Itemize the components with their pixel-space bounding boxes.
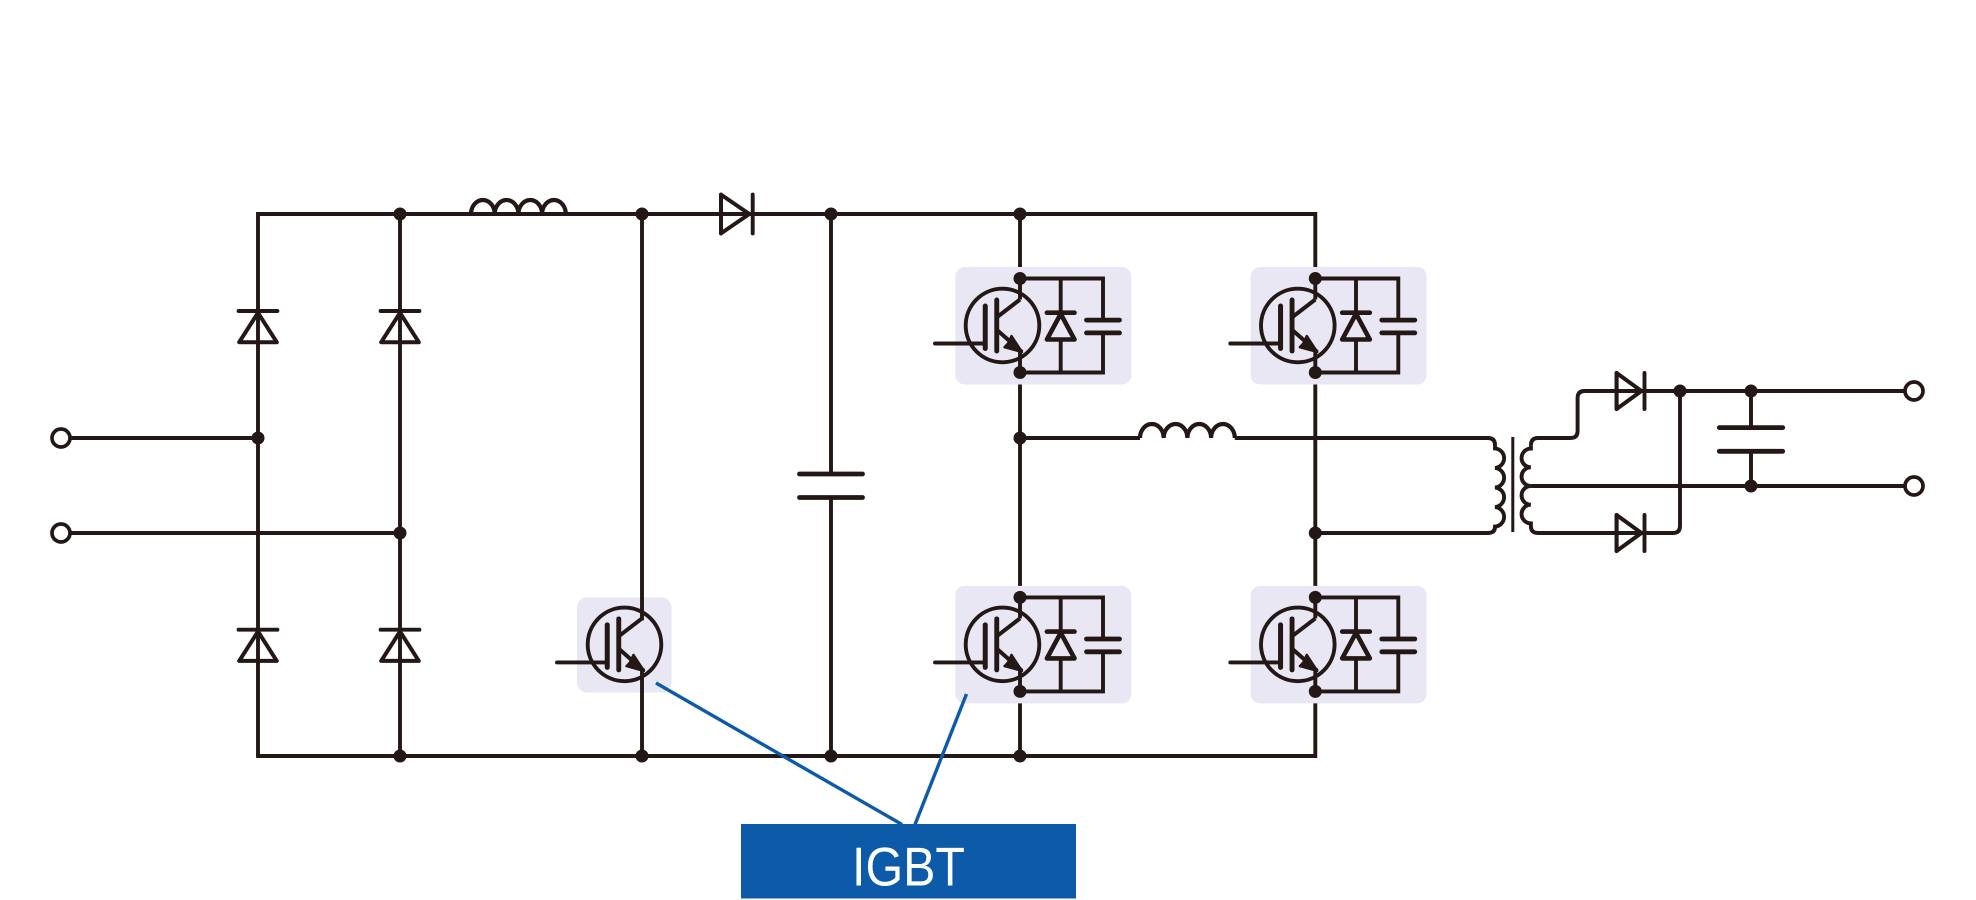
- wire: left leg + top bus + right leg upper segment: [258, 214, 1315, 756]
- node: bottom bus / leg2: [394, 750, 407, 763]
- diode D6 (output rectifier top): [1617, 373, 1645, 409]
- diode D7 (output rectifier bottom): [1617, 515, 1645, 551]
- inductor L1 (PFC choke): [471, 200, 566, 214]
- wire: secondary top lead to output top rail: [1531, 391, 1905, 446]
- wire: input line 1: [71, 436, 259, 440]
- diode D5 (boost diode): [721, 195, 753, 234]
- terminal: AC input bottom: [52, 524, 70, 542]
- terminal: DC output minus: [1905, 477, 1923, 495]
- inductor L2 (bridge output choke): [1140, 424, 1235, 438]
- bulk capacitor C1 plates: [800, 474, 863, 498]
- terminal: AC input top: [52, 429, 70, 447]
- wire: bridge right leg segments: [1313, 373, 1317, 598]
- wire: bulk capacitor leg upper: [829, 214, 833, 474]
- wire: bulk capacitor leg lower: [829, 498, 833, 757]
- wire: output capacitor leads: [1749, 391, 1753, 486]
- diode D4 (rectifier lower right): [381, 630, 420, 661]
- node: input 2 / leg2: [394, 527, 407, 540]
- node: top bus / cap leg: [825, 208, 838, 221]
- node: bottom bus / bridge left leg: [1014, 750, 1027, 763]
- transformer core line: [1511, 437, 1514, 532]
- wire: boost IGBT leg lower: [640, 670, 644, 756]
- wire: rectifier leg 2 vertical: [398, 214, 402, 756]
- wire: secondary centre tap / output bottom rail: [1531, 484, 1905, 488]
- callout line to Q1: [656, 683, 902, 825]
- node: output cap bottom: [1745, 480, 1758, 493]
- callout line to Q4: [915, 694, 967, 825]
- transistor Q1 (boost IGBT): [557, 608, 661, 682]
- node: bridge left leg mid: [1014, 432, 1027, 445]
- wire + transformer primary winding: [1235, 438, 1504, 533]
- diode D1 (rectifier upper left): [239, 311, 278, 342]
- transformer secondary winding + bottom lead + riser: [1522, 391, 1680, 533]
- diode D3 (rectifier lower left): [239, 630, 278, 661]
- wire: input line 2: [71, 531, 401, 535]
- output capacitor C2 plates: [1719, 428, 1782, 452]
- IGBT module Q3 (bridge top-right): [1230, 267, 1426, 385]
- IGBT module Q4 (bridge bottom-left): [935, 586, 1131, 704]
- node: top bus / boost leg: [636, 208, 649, 221]
- terminal: DC output plus: [1905, 382, 1923, 400]
- wire: bridge mid wire to inductor: [1020, 436, 1140, 440]
- node: output rectifier junction: [1674, 385, 1687, 398]
- node: input 1 / leg1: [252, 432, 265, 445]
- node: bridge right leg mid: [1309, 527, 1322, 540]
- wire: right leg lower segment + bottom bus: [256, 675, 1315, 756]
- node: bottom bus / cap leg: [825, 750, 838, 763]
- highlight pad of boost IGBT Q1: [577, 598, 672, 693]
- IGBT module Q2 (bridge top-left): [935, 267, 1131, 385]
- node: output cap top: [1745, 385, 1758, 398]
- IGBT module Q5 (bridge bottom-right): [1230, 586, 1426, 704]
- node: top bus / bridge left leg: [1014, 208, 1027, 221]
- svg-text:IGBT: IGBT: [852, 836, 965, 898]
- diode D2 (rectifier upper right): [381, 311, 420, 342]
- wire: bridge left leg segments: [1018, 214, 1022, 756]
- node: top bus / leg2: [394, 208, 407, 221]
- wire: boost IGBT leg upper: [640, 214, 644, 620]
- label box IGBT: [741, 824, 1076, 899]
- node: bottom bus / boost leg: [636, 750, 649, 763]
